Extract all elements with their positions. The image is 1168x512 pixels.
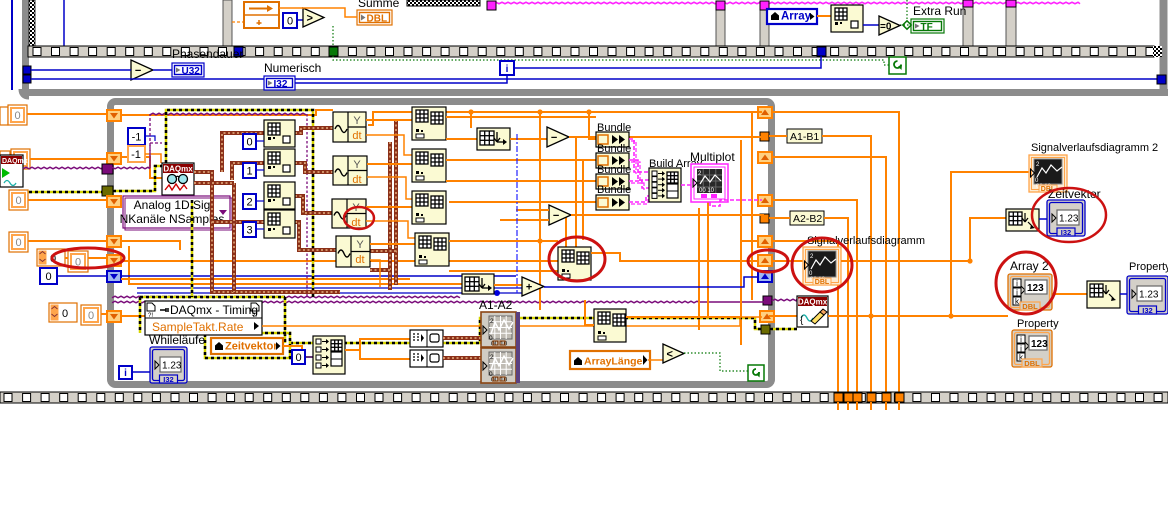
tunnel R2 (up): [758, 152, 772, 163]
sequence structure film strip (bottom): [0, 392, 1168, 403]
shift register tunnel L6 blue: [107, 271, 121, 282]
annotation ellipse (dt): [344, 207, 374, 229]
svg-text:U32: U32: [182, 66, 201, 77]
wire (tails below strip): [838, 402, 899, 410]
numeric constant 0 (blue, bottom): [292, 350, 305, 364]
wire (to graph 2): [443, 356, 481, 360]
svg-text:3: 3: [246, 225, 252, 237]
numeric constant 0 blue (left): [40, 268, 57, 284]
build array node (multiplot): [649, 168, 681, 202]
svg-text:SampleTakt.Rate: SampleTakt.Rate: [152, 320, 244, 334]
local variable ArrayLänge: [570, 351, 650, 369]
svg-text:2: 2: [490, 354, 494, 361]
wire (multiplot out): [710, 200, 762, 206]
greater-than node: [303, 8, 324, 27]
indicator DBL (Summe): [357, 10, 392, 25]
wire (y316 run): [828, 315, 1008, 317]
svg-text:DBL: DBL: [815, 279, 830, 286]
tunnel (magenta) x1006: [1006, 0, 1016, 7]
svg-text:dt: dt: [355, 254, 364, 266]
wire (purple zigzag to DAQmx): [103, 167, 150, 169]
wire (v970): [970, 218, 1006, 261]
bundle node 2: [596, 153, 629, 168]
wire (tunnel L1 run): [121, 110, 333, 115]
svg-text:DBL: DBL: [1022, 302, 1038, 311]
svg-text:dt: dt: [352, 130, 361, 142]
svg-text:=0: =0: [880, 22, 892, 33]
shift register tunnel L4: [107, 236, 121, 247]
svg-text:j: j: [1015, 288, 1018, 297]
annotation ellipse (Array 2): [996, 252, 1056, 314]
svg-text:>: >: [307, 13, 313, 25]
main while-loop border: [111, 102, 772, 385]
in-range-and-coerce node: [244, 2, 279, 28]
wire: [145, 154, 161, 163]
wire: [256, 200, 264, 202]
wire (blue): [57, 275, 110, 277]
svg-text:0: 0: [14, 110, 20, 122]
wire (R1 down): [772, 112, 899, 392]
shift register tunnel L2: [107, 153, 121, 164]
svg-text:0: 0: [295, 352, 301, 364]
array subset node 3: [412, 191, 446, 224]
index array node 3: [264, 210, 295, 238]
svg-text:Array: Array: [781, 11, 812, 23]
wire (blue long y293): [137, 292, 497, 294]
get date-time node: [1006, 209, 1039, 231]
sequence frame pillar x1006: [1006, 5, 1016, 47]
svg-text:−: −: [551, 132, 557, 144]
add node: [522, 277, 544, 296]
get waveform components 3 (dt circled): [332, 199, 366, 228]
polymorphic selector (Analog 1D Sig): [123, 196, 230, 228]
wire (R3 down): [772, 200, 857, 392]
wire (v951 to chart2): [951, 172, 1029, 316]
DAQmx Clear Task VI: [797, 296, 828, 327]
wire: [769, 315, 797, 317]
svg-text:1.23: 1.23: [162, 361, 182, 372]
svg-text:Summe: Summe: [358, 0, 400, 10]
constant 1: [243, 163, 256, 178]
numeric control 0 #5: [49, 303, 77, 322]
svg-text:i: i: [124, 368, 127, 379]
wire: [510, 138, 547, 140]
svg-text:2: 2: [490, 318, 494, 325]
svg-text:I32: I32: [274, 79, 288, 90]
wire (to A1-B1 tunnel): [569, 136, 764, 138]
wire (to A2-B2 tunnel): [571, 214, 764, 216]
wire (error up-over-down): [166, 110, 313, 297]
svg-text:I32: I32: [1061, 228, 1071, 237]
tunnel (green) on strip x329: [329, 47, 338, 56]
svg-text:1.23: 1.23: [1059, 214, 1079, 225]
tunnel (orange) strip 3: [853, 393, 862, 402]
wire (subset outs to bundles): [446, 117, 596, 202]
green diamond node: [903, 21, 911, 29]
sequence frame separator x223: [223, 0, 232, 47]
svg-text:Zeitvektor: Zeitvektor: [225, 341, 278, 353]
wire (blue vertical x64): [63, 0, 65, 46]
local variable Array: [767, 9, 817, 24]
bundle node 4: [596, 195, 629, 210]
label A2-B2 box: [790, 211, 824, 225]
array subset node 1: [412, 107, 446, 140]
array indicator (Array 2): [1008, 274, 1052, 310]
wire (blue long y288): [137, 287, 522, 289]
array indicator (Property): [1012, 330, 1052, 367]
wire (blue dash-dot vertical): [516, 134, 518, 293]
DAQmx task control (clipped): [0, 155, 23, 187]
numeric control 0 #2: [11, 149, 30, 169]
wire (I32 to i): [295, 75, 507, 83]
loop condition terminal (top): [889, 57, 906, 74]
tunnel R7 (up): [760, 311, 774, 322]
wire (R2 down): [772, 157, 886, 392]
svg-text:Y: Y: [353, 159, 361, 171]
wire: [28, 240, 110, 242]
interpolate 1D node: [477, 128, 510, 150]
svg-text:Extra Run: Extra Run: [913, 4, 966, 18]
build waveform node 2: [410, 350, 443, 367]
constant 3: [243, 222, 256, 237]
svg-text:Property: Property: [1129, 261, 1168, 273]
wire (green dotted =0 branch): [906, 0, 908, 22]
svg-text:1: 1: [246, 166, 252, 178]
build waveform node 1: [410, 330, 443, 347]
tunnel (blue) on strip x817: [817, 47, 826, 56]
numeric control 0 small (circled): [37, 249, 65, 266]
wire (purple zigzag y297): [112, 296, 460, 298]
svg-text:I32: I32: [1142, 306, 1152, 315]
wire (to graph 1): [443, 336, 481, 340]
indicator 1.23 I32 (Zeitvektor): [1047, 200, 1085, 236]
DAQmx Timing property node: [145, 301, 262, 335]
wire (verticals right): [698, 208, 700, 330]
numeric constant 0 #5b: [81, 305, 101, 325]
wire: [262, 317, 762, 326]
wire (purple up-over-down): [149, 114, 151, 166]
wire (2D array maroon web): [194, 172, 340, 292]
multiplot xy graph terminal: [691, 164, 728, 202]
wire (tunnel to subtract): [31, 69, 131, 71]
tunnel (olive square) L: [102, 186, 113, 196]
index array node (bottom right): [594, 309, 626, 342]
wire: [145, 136, 155, 141]
waveform chart terminal (Signalverlaufsdiagramm): [803, 247, 841, 285]
svg-text:dt: dt: [352, 174, 361, 186]
tunnel (orange) strip 5: [882, 393, 891, 402]
wire: [769, 136, 871, 392]
wire: [494, 284, 522, 286]
wire: [585, 300, 594, 325]
svg-text:A1-B1: A1-B1: [790, 131, 819, 143]
bundle node 3: [596, 174, 629, 189]
tunnel R5 (up, circled): [758, 255, 772, 266]
wire (error dashed to loop): [23, 191, 102, 194]
tunnel (purple square) L: [102, 164, 113, 174]
tunnel (magenta) x963: [963, 0, 973, 7]
less-than node: [663, 344, 684, 363]
wire (verticals center): [470, 112, 472, 128]
svg-text:2: 2: [246, 197, 252, 209]
iteration terminal i (loop): [119, 366, 132, 379]
svg-text:DBL: DBL: [1024, 359, 1040, 368]
wire (ydt outputs): [366, 120, 415, 244]
annotation ellipse (chart 1): [792, 238, 852, 292]
wire: [591, 253, 758, 261]
wire: [648, 359, 663, 361]
wire (green dotted to loop cond): [684, 353, 748, 371]
svg-text:+: +: [526, 282, 532, 294]
svg-text:j: j: [1019, 344, 1022, 353]
shift register tunnel L1: [107, 110, 121, 121]
tunnel (magenta) x487: [487, 1, 496, 10]
svg-text:123: 123: [1027, 283, 1044, 294]
svg-text:TF: TF: [921, 22, 933, 33]
wire (waveform verticals): [390, 120, 396, 290]
svg-text:Y: Y: [353, 115, 361, 127]
sequence structure left hatched border: [29, 0, 35, 47]
wire (0 to greater): [297, 19, 303, 21]
numeric control 0 #1: [8, 105, 27, 125]
index array node 1: [264, 149, 295, 176]
wire (purple to clear): [772, 299, 797, 301]
tunnel (blue) on strip x234: [234, 47, 243, 56]
waveform chart terminal 2: [1029, 155, 1067, 192]
svg-text:Bundle: Bundle: [597, 184, 631, 196]
shift register tunnel L5 (circled): [107, 255, 121, 266]
label A1-B1 box: [787, 129, 822, 143]
svg-text:0: 0: [15, 237, 21, 249]
wire (green dotted condition run): [333, 26, 889, 65]
wire: [446, 138, 477, 140]
svg-text:−: −: [553, 210, 559, 222]
wire (error wrap Zeitvektor): [205, 333, 290, 358]
tunnel (orange) strip 2: [844, 393, 853, 402]
sequence right hatched end: [1153, 46, 1162, 57]
tunnel (orange) strip 1: [834, 393, 843, 402]
wire (Array var to array-size): [817, 15, 831, 17]
svg-text:DAQmx: DAQmx: [163, 165, 193, 174]
wire: [626, 316, 740, 318]
wire (chart out right): [841, 260, 970, 262]
sequence frame pillar x760: [760, 8, 769, 47]
index array node 0: [264, 120, 295, 147]
array size node: [831, 5, 863, 32]
wire (pink to multiplot): [681, 184, 691, 186]
tunnel (blue) outer left b: [23, 75, 31, 83]
svg-text:Multiplot: Multiplot: [690, 150, 735, 164]
wire (top long run): [368, 112, 762, 125]
subtract node (Phasendauer): [131, 60, 153, 80]
wire: [544, 277, 758, 287]
wire (error main path): [140, 200, 761, 343]
wire (=0 to TF): [900, 24, 911, 26]
wire: [121, 157, 162, 178]
wire (waveform feeds idx->ydt): [295, 128, 336, 250]
interpolate node 2: [462, 274, 494, 294]
svg-text:DBL: DBL: [367, 14, 388, 25]
sequence structure film strip (top): [28, 46, 1154, 57]
svg-text:i: i: [1020, 335, 1022, 344]
wire: [30, 158, 110, 160]
annotation ellipse (left constant): [52, 248, 124, 268]
wire (purple task refnum): [23, 167, 103, 169]
tunnel R olive square: [761, 325, 770, 334]
wire: [129, 246, 462, 284]
wire: [345, 339, 410, 359]
tunnel R3 (up): [758, 195, 772, 206]
wire: [769, 218, 848, 392]
wire (ydt dt outputs): [366, 135, 415, 287]
tunnel (blue) outer right: [1157, 75, 1166, 84]
wire: [256, 228, 264, 230]
svg-text:Phasendauer: Phasendauer: [172, 47, 243, 61]
svg-text:1.23: 1.23: [1139, 290, 1159, 301]
svg-text:Property: Property: [1017, 318, 1059, 330]
svg-text:0: 0: [246, 137, 252, 149]
annotation ellipse (index array): [549, 237, 605, 281]
svg-text:Analog 1D Sig: Analog 1D Sig: [134, 198, 211, 212]
get date-time node 2: [1087, 281, 1120, 308]
constant 0: [243, 134, 256, 149]
svg-text:0: 0: [287, 16, 293, 28]
tunnel (orange) strip 6: [895, 393, 904, 402]
shift register tunnel L3: [107, 196, 121, 207]
svg-text:0: 0: [45, 271, 51, 283]
build array node (bottom): [313, 336, 345, 374]
svg-text:0: 0: [62, 308, 68, 320]
subtract node 2: [549, 205, 571, 225]
DAQmx Read VI: [162, 163, 194, 195]
svg-text:−: −: [135, 65, 141, 77]
outer while-loop left border (top): [22, 0, 29, 90]
wire: [121, 241, 180, 250]
numeric constant 0 (circled): [68, 251, 88, 272]
get waveform components 1: [333, 112, 366, 142]
tunnel R6 (blue up): [758, 271, 772, 282]
numeric control 0 #3: [9, 190, 28, 210]
svg-text:DAQmx: DAQmx: [2, 158, 28, 165]
wire (pink refnum zigzag): [487, 2, 1080, 4]
svg-text:DAQmx - Timing: DAQmx - Timing: [170, 303, 258, 317]
wire (pink cluster web): [629, 139, 650, 202]
wire: [256, 169, 264, 171]
indicator I32 (Numerisch): [264, 76, 295, 90]
tunnel (blue) outer left a: [23, 66, 31, 74]
svg-text:0: 0: [88, 310, 94, 322]
wire: [305, 356, 314, 358]
wire: [65, 257, 110, 259]
svg-text:I32: I32: [163, 375, 173, 384]
wire (coerce to DBL): [279, 8, 357, 17]
svg-text:i: i: [506, 64, 509, 75]
tunnel (orange) strip 4: [867, 393, 876, 402]
shift register tunnel L7: [107, 311, 121, 322]
numeric constant 0 (top): [283, 13, 297, 28]
numeric control fragment a: [0, 107, 8, 125]
svg-text:0: 0: [15, 195, 21, 207]
wire: [132, 371, 150, 373]
constant -1 (orange): [128, 146, 145, 162]
indicator 1.23 (Property): [1127, 276, 1168, 314]
svg-text:Numerisch: Numerisch: [264, 61, 321, 75]
wire (R5 to chart): [772, 260, 803, 262]
svg-text:A1-A2: A1-A2: [479, 298, 513, 312]
local variable Zeitvektor: [211, 338, 283, 354]
numeric control fragment b: [0, 151, 10, 169]
wire: [1120, 293, 1127, 295]
indicator U32: [172, 63, 204, 77]
loop condition terminal (bottom): [748, 365, 764, 381]
wire (long feeds): [449, 240, 558, 242]
svg-text:Array 2: Array 2: [1010, 259, 1049, 273]
indicator TF (Extra Run): [911, 19, 944, 33]
outer while-loop bottom border (top): [22, 89, 1168, 96]
wire (long blue bottom): [31, 78, 1158, 80]
annotation ellipse (Zeitvektor): [1032, 188, 1106, 242]
svg-text:Whileläufe: Whileläufe: [149, 333, 205, 347]
svg-text:DAQmx: DAQmx: [798, 298, 828, 307]
index array node (circled): [558, 247, 591, 280]
array subset node 2: [412, 149, 446, 182]
xy graph terminal A1-A2 (1): [481, 312, 516, 347]
annotation ellipse (tunnel R5): [748, 250, 788, 272]
wire: [283, 346, 313, 357]
get waveform components 2: [333, 156, 367, 185]
svg-text:-1: -1: [131, 149, 141, 161]
numeric control 0 #4: [9, 232, 28, 252]
wire: [27, 113, 110, 115]
svg-text:<: <: [667, 349, 673, 361]
svg-text:i: i: [1016, 279, 1018, 288]
tunnel R square A1-B1: [760, 132, 769, 141]
wire (orange dashed into coerce): [232, 21, 244, 23]
svg-text:00 10: 00 10: [699, 188, 715, 194]
wire (array size to =0): [863, 24, 879, 26]
constant -1 (blue): [128, 128, 145, 145]
outer while-loop right border (top): [1160, 0, 1168, 92]
svg-text:ArrayLänge: ArrayLänge: [584, 356, 643, 368]
graph frame purple band: [516, 312, 520, 383]
wire (into subtract2): [500, 210, 549, 220]
wire (subtract to U32): [153, 69, 172, 71]
index array node 2: [264, 182, 295, 209]
sequence frame pillar x716: [716, 8, 725, 47]
svg-text:A2-B2: A2-B2: [793, 213, 822, 225]
wire: [101, 313, 110, 315]
equals-zero node: [879, 16, 900, 35]
sequence frame pillar x963: [963, 5, 973, 47]
wire: [1039, 218, 1047, 220]
wire (purple zigzag y302): [112, 301, 700, 303]
xy graph terminal A1-A2 (2): [481, 348, 516, 383]
svg-text:?!: ?!: [148, 313, 153, 319]
svg-text:-1: -1: [132, 132, 142, 144]
wire (L5 long run y261): [121, 260, 558, 262]
wire: [28, 199, 110, 201]
wire: [256, 140, 264, 142]
get waveform components 4: [336, 236, 370, 267]
iteration terminal i (top): [500, 61, 514, 75]
wire (R4 down): [772, 241, 838, 392]
svg-text:123: 123: [1031, 339, 1048, 350]
indicator 1.23 I32 (loop count): [150, 347, 187, 383]
svg-text:Y: Y: [356, 239, 364, 251]
wire (blue vertical at far left): [11, 0, 13, 90]
tunnel (magenta) x760: [760, 1, 769, 10]
tunnel R4 (up): [758, 236, 772, 247]
